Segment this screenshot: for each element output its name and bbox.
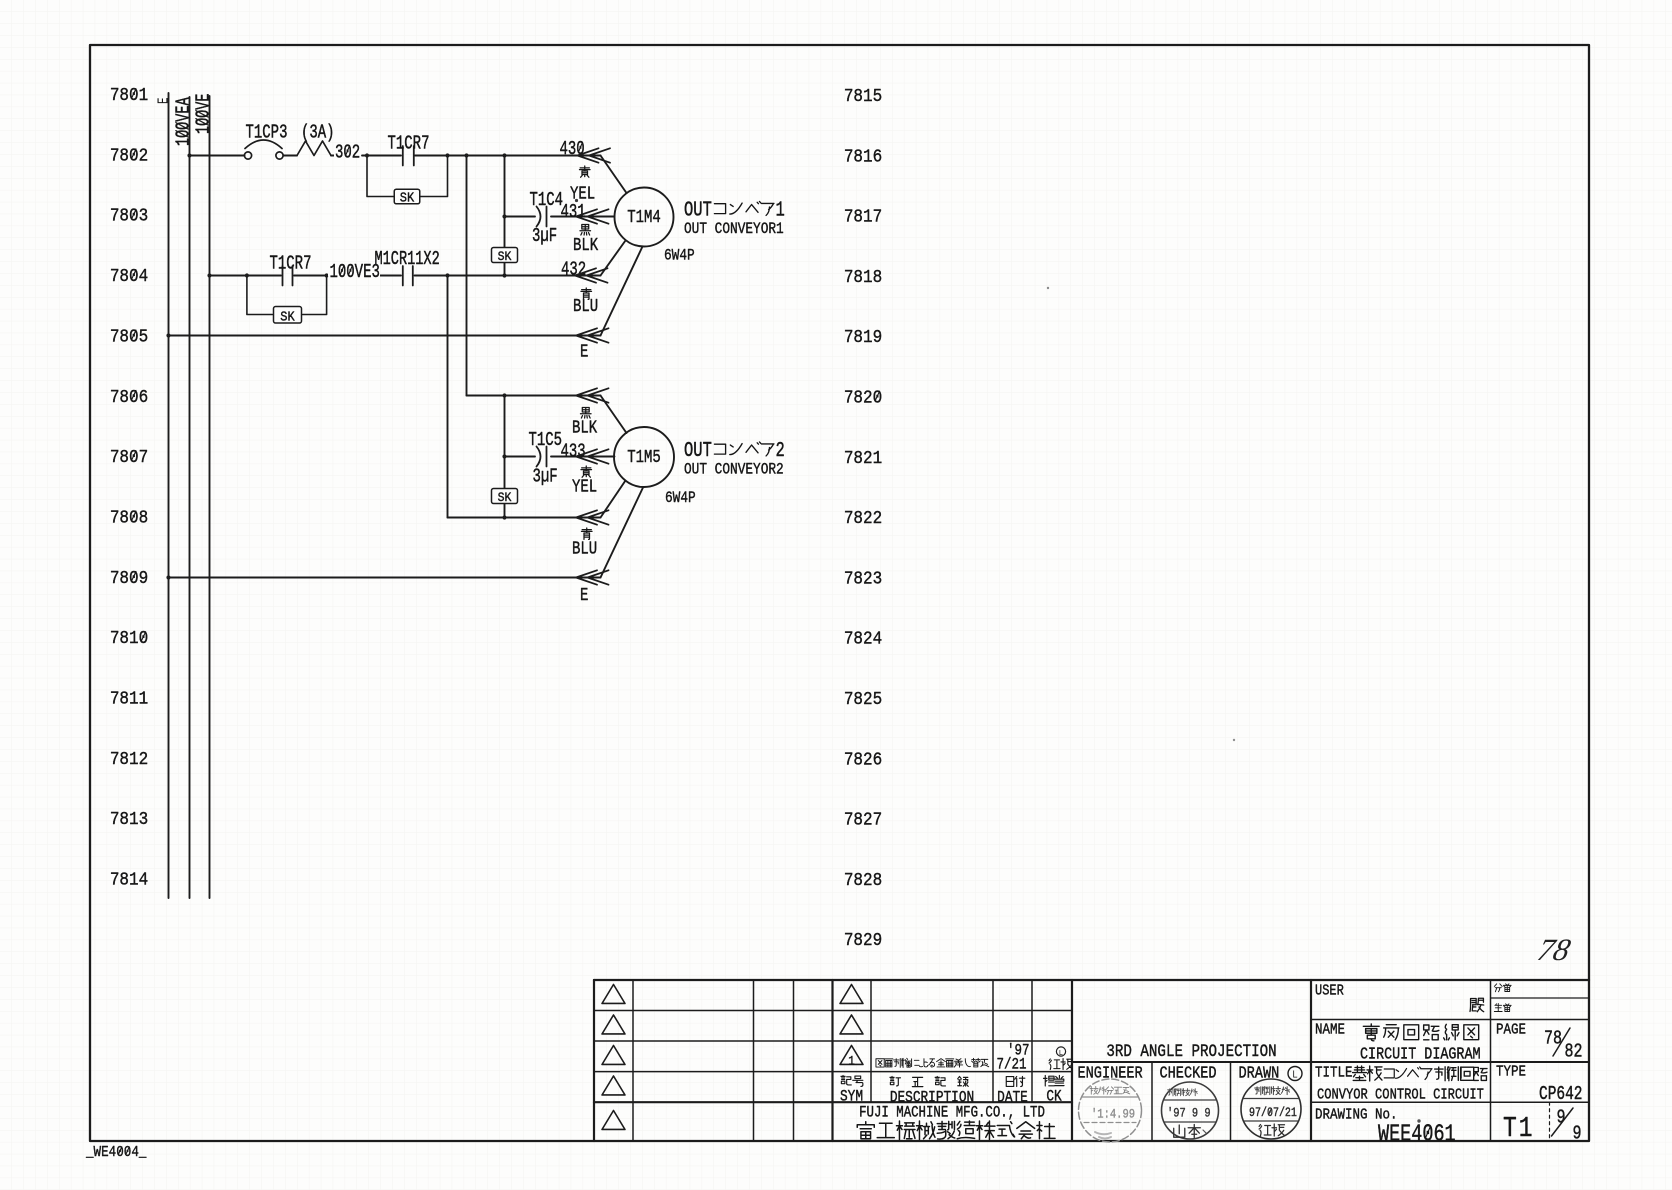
approval stamp DRAWN (Esaka, 97/07/21) bbox=[1241, 1079, 1301, 1139]
NO contact M1CR11X2 (rung 7804) bbox=[375, 248, 440, 286]
wire between fuse and resistor bbox=[284, 155, 298, 157]
svg-text:7816: 7816 bbox=[844, 146, 882, 168]
svg-text:7815: 7815 bbox=[844, 86, 882, 108]
svg-text:7801: 7801 bbox=[110, 85, 148, 107]
svg-text:CP642: CP642 bbox=[1539, 1084, 1582, 1106]
svg-text:6W4P: 6W4P bbox=[664, 247, 695, 265]
fuse/plug contact T1CP3 (3A) bbox=[244, 123, 334, 160]
revision triangles left table bbox=[602, 984, 625, 1129]
wire 100VE3 label segment bbox=[294, 262, 401, 284]
svg-text:BLU: BLU bbox=[572, 538, 597, 559]
approval headers ENGINEER CHECKED DRAWN bbox=[1078, 1063, 1303, 1083]
svg-text:7823: 7823 bbox=[844, 568, 882, 590]
svg-text:1: 1 bbox=[848, 1054, 855, 1069]
svg-text:7814: 7814 bbox=[110, 869, 148, 891]
svg-text:'97 9 9: '97 9 9 bbox=[1167, 1107, 1211, 1121]
svg-text:7809: 7809 bbox=[110, 568, 148, 590]
svg-text:CK: CK bbox=[1046, 1088, 1062, 1106]
svg-text:YEL: YEL bbox=[572, 476, 597, 497]
wire rung 7802 to arrows (wire 430) bbox=[415, 153, 601, 157]
svg-text:7822: 7822 bbox=[844, 508, 882, 530]
svg-text:7806: 7806 bbox=[110, 387, 148, 409]
svg-text:3µF: 3µF bbox=[532, 226, 557, 248]
svg-text:SK: SK bbox=[498, 249, 512, 264]
revision table headers SYM DESCRIPTION DATE CK bbox=[840, 1076, 1064, 1108]
svg-text:7813: 7813 bbox=[110, 809, 148, 831]
svg-text:T1CP3: T1CP3 bbox=[246, 123, 288, 145]
svg-text:'1:4.99: '1:4.99 bbox=[1091, 1108, 1135, 1122]
svg-text:6W4P: 6W4P bbox=[665, 490, 696, 508]
svg-text:7817: 7817 bbox=[844, 206, 882, 228]
svg-text:7827: 7827 bbox=[844, 809, 882, 831]
svg-text:SK: SK bbox=[498, 490, 512, 505]
PAGE cell 78/82 bbox=[1496, 1023, 1582, 1064]
svg-text:7819: 7819 bbox=[844, 327, 882, 349]
svg-text:CHECKED: CHECKED bbox=[1160, 1063, 1217, 1083]
svg-text:2: 2 bbox=[776, 438, 785, 463]
svg-text:OUT: OUT bbox=[684, 438, 712, 463]
svg-text:CIRCUIT DIAGRAM: CIRCUIT DIAGRAM bbox=[1360, 1044, 1481, 1064]
SK interlock bypass loop on rung 7804 bbox=[245, 273, 329, 324]
svg-text:T1: T1 bbox=[1503, 1112, 1535, 1145]
svg-text:PAGE: PAGE bbox=[1496, 1023, 1526, 1039]
svg-text:USER: USER bbox=[1315, 983, 1344, 999]
svg-text:BLK: BLK bbox=[572, 417, 597, 438]
svg-text:BLU: BLU bbox=[573, 295, 598, 316]
wire link x466 from rung 7802 down to rung 7806 bbox=[466, 156, 468, 396]
svg-text:T1CR7: T1CR7 bbox=[388, 134, 430, 156]
revision triangle 1 with note: zumen seibi full replacement, 97 7/21, Esaka bbox=[840, 1042, 1073, 1074]
wire 433 label, chevrons, yellow YEL lead into motor T1M5 bbox=[551, 442, 615, 498]
svg-text:7804: 7804 bbox=[110, 266, 148, 288]
bus E vertical line with label bbox=[155, 93, 172, 898]
svg-text:TYPE: TYPE bbox=[1496, 1065, 1526, 1081]
approval stamp ENGINEER (faint) bbox=[1079, 1079, 1142, 1142]
motor U1 T1M4 OUT CONVEYOR1 6W4P bbox=[615, 188, 785, 266]
wire 432 label, chevrons, blue BLU lead into motor T1M4 bbox=[561, 241, 626, 317]
svg-text:430: 430 bbox=[560, 139, 585, 161]
svg-text:7/21: 7/21 bbox=[997, 1056, 1027, 1074]
wire link x504 upper (rung 7802 to 7804) with SK interlock bbox=[492, 156, 518, 276]
svg-text:SK: SK bbox=[280, 309, 295, 325]
bus 100VE vertical line with label bbox=[193, 94, 215, 898]
motor U2 T1M5 OUT CONVEYOR2 6W4P bbox=[614, 427, 785, 508]
NO contact T1CR7 (rung 7802) bbox=[388, 134, 430, 166]
svg-text:7807: 7807 bbox=[110, 447, 148, 469]
svg-text:E: E bbox=[580, 341, 588, 362]
right rung number column 7815-7829 bbox=[844, 86, 882, 952]
wire 431 label, chevrons, black BLK lead into motor T1M4 bbox=[551, 202, 615, 256]
svg-text:OUT CONVEYOR2: OUT CONVEYOR2 bbox=[684, 461, 784, 479]
svg-text:3RD ANGLE PROJECTION: 3RD ANGLE PROJECTION bbox=[1106, 1042, 1276, 1062]
svg-text:7829: 7829 bbox=[844, 930, 882, 952]
svg-text:NAME: NAME bbox=[1315, 1023, 1345, 1039]
svg-text:302: 302 bbox=[335, 143, 360, 165]
svg-text:SK: SK bbox=[400, 190, 415, 206]
svg-text:433: 433 bbox=[561, 442, 586, 464]
company row FUJI MACHINE MFG.CO., LTD bbox=[857, 1104, 1055, 1139]
svg-text:L: L bbox=[1292, 1069, 1297, 1081]
svg-text:ENGINEER: ENGINEER bbox=[1078, 1063, 1143, 1083]
svg-text:7825: 7825 bbox=[844, 689, 882, 711]
approval stamp CHECKED (Yamamoto, 97 9 9) bbox=[1162, 1082, 1219, 1139]
svg-text:T1M4: T1M4 bbox=[627, 206, 661, 227]
svg-text:1ØØVEA: 1ØØVEA bbox=[173, 97, 195, 146]
svg-text:7821: 7821 bbox=[844, 448, 882, 470]
svg-text:BLK: BLK bbox=[573, 234, 598, 255]
svg-text:7828: 7828 bbox=[844, 870, 882, 892]
capacitor T1C4 3uF on wire 431 bbox=[502, 190, 563, 248]
svg-text:T1C5: T1C5 bbox=[529, 430, 563, 452]
svg-text:TITLE: TITLE bbox=[1315, 1066, 1352, 1082]
wire rung 7809 E return from bus E to motor T1M5 bbox=[166, 488, 643, 606]
svg-text:7808: 7808 bbox=[110, 507, 148, 529]
wire link x447 from rung 7804 down to rung 7808 bbox=[447, 276, 449, 518]
wire link x504 lower (rung 7806 to 7808) with SK interlock bbox=[492, 396, 518, 518]
svg-text:1ØØVE: 1ØØVE bbox=[193, 94, 215, 134]
svg-text:9: 9 bbox=[1573, 1124, 1582, 1145]
svg-text:T1CR7: T1CR7 bbox=[270, 254, 312, 276]
sheet cell T1 9/9 bbox=[1503, 1102, 1581, 1145]
revision triangles second table bbox=[840, 984, 863, 1034]
USER cell with tono bbox=[1315, 983, 1484, 1012]
svg-text:FUJI MACHINE MFG.CO., LTD: FUJI MACHINE MFG.CO., LTD bbox=[859, 1104, 1045, 1122]
svg-text:WEE4061: WEE4061 bbox=[1378, 1121, 1456, 1148]
TITLE cell: kiban conveyor seigyo kairo / CONVYOR CONTROL CIRCUIT bbox=[1315, 1066, 1487, 1104]
DRAWING No. cell WEE4061 bbox=[1315, 1108, 1456, 1149]
svg-text:82: 82 bbox=[1565, 1042, 1583, 1063]
svg-text:M1CR11X2: M1CR11X2 bbox=[375, 248, 440, 270]
wire 430 label, chevron arrows, yellow YEL lead into motor T1M4 bbox=[560, 139, 627, 204]
svg-text:97/07/21: 97/07/21 bbox=[1249, 1107, 1297, 1120]
svg-text:_WE4004_: _WE4004_ bbox=[85, 1144, 147, 1161]
NAME cell: denki kairo senzu CIRCUIT DIAGRAM bbox=[1315, 1023, 1481, 1064]
svg-text:7805: 7805 bbox=[110, 326, 148, 348]
title block table grid bbox=[594, 980, 1589, 1141]
svg-text:7818: 7818 bbox=[844, 267, 882, 289]
wire rung 7802 start segment from bus 100VEA bbox=[187, 153, 244, 157]
svg-text:100VE3: 100VE3 bbox=[330, 262, 380, 284]
left rung number column 7801-7814 bbox=[110, 85, 148, 891]
bus 100VEA vertical line with label bbox=[173, 97, 195, 898]
svg-text:7826: 7826 bbox=[844, 749, 882, 771]
wire 302 to contact T1CR7 bbox=[362, 155, 401, 157]
svg-text:1: 1 bbox=[776, 197, 785, 222]
svg-text:431: 431 bbox=[561, 202, 586, 224]
wire rung 7806 black BLK lead into motor T1M5 bbox=[467, 388, 627, 438]
svg-text:E: E bbox=[155, 97, 172, 104]
svg-text:L: L bbox=[1059, 1048, 1063, 1057]
bunban / seiban small cells bbox=[1494, 984, 1511, 1012]
resistor, wire number 302 bbox=[297, 141, 364, 164]
svg-text:7803: 7803 bbox=[110, 206, 148, 228]
NO contact T1CR7 (rung 7804) bbox=[270, 254, 312, 286]
wire rung 7804 from bus 100VE bbox=[207, 273, 281, 277]
TYPE cell CP642 bbox=[1496, 1065, 1582, 1106]
svg-text:T1C4: T1C4 bbox=[530, 190, 564, 212]
svg-text:CONVYOR CONTROL CIRCUIT: CONVYOR CONTROL CIRCUIT bbox=[1317, 1087, 1484, 1104]
svg-text:OUT CONVEYOR1: OUT CONVEYOR1 bbox=[684, 221, 784, 239]
wire 432 to arrows bbox=[415, 273, 601, 277]
wire rung 7805 E return from bus E to motor T1M4 bbox=[166, 247, 642, 363]
capacitor T1C5 3uF on wire 433 bbox=[502, 430, 562, 488]
svg-text:T1M5: T1M5 bbox=[627, 446, 661, 467]
svg-text:7812: 7812 bbox=[110, 749, 148, 771]
svg-text:7824: 7824 bbox=[844, 629, 882, 651]
SK interlock bypass loop around T1CR7 bbox=[365, 153, 450, 205]
svg-text:3µF: 3µF bbox=[533, 467, 558, 489]
svg-text:7802: 7802 bbox=[110, 145, 148, 167]
svg-text:DRAWN: DRAWN bbox=[1239, 1063, 1280, 1083]
svg-text:7811: 7811 bbox=[110, 688, 148, 710]
wire rung 7808 blue BLU lead into motor T1M5 bbox=[448, 481, 626, 560]
svg-text:YEL: YEL bbox=[570, 183, 595, 204]
svg-text:E: E bbox=[580, 584, 588, 605]
svg-text:OUT: OUT bbox=[684, 197, 712, 222]
